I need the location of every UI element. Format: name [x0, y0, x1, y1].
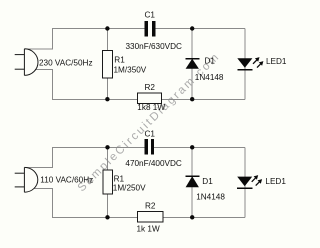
- svg-text:R1: R1: [114, 55, 125, 64]
- diode D1 (top) wire: [191, 29, 193, 100]
- LED1 (bottom) wire: [244, 147, 246, 217]
- resistor R1 (top) body: [103, 50, 113, 78]
- wire: bottom rail: [52, 216, 245, 218]
- svg-text:R1: R1: [114, 175, 125, 184]
- svg-text:1N4148: 1N4148: [196, 192, 225, 201]
- node dot D1 bottom-circuit top: [190, 145, 194, 149]
- svg-text:1M/250V: 1M/250V: [113, 183, 146, 192]
- wire: left jog top (plug to top rail): [24, 29, 52, 49]
- node dot D1 top: [190, 26, 194, 30]
- wire: left jog top: [24, 147, 52, 167]
- svg-text:C1: C1: [145, 11, 156, 20]
- svg-text:C1: C1: [145, 130, 156, 139]
- wire: left jog bottom: [34, 189, 52, 218]
- wire: top rail (left of C1): [52, 28, 145, 30]
- LED1 (top) light arrow 1: [253, 60, 257, 64]
- svg-text:1M/350V: 1M/350V: [114, 66, 147, 75]
- LED1 (top) cathode bar: [237, 69, 252, 70]
- LED1 (top) triangle: [237, 58, 252, 68]
- svg-text:LED1: LED1: [266, 57, 287, 66]
- svg-text:470nF/400VDC: 470nF/400VDC: [125, 159, 182, 168]
- diode D1 (top) triangle: [186, 59, 199, 69]
- resistor R1 (bottom) body: [103, 170, 113, 194]
- svg-text:D1: D1: [205, 56, 216, 65]
- plug AC mains (bottom circuit): [15, 167, 38, 192]
- svg-text:1k8 1W: 1k8 1W: [137, 103, 165, 112]
- capacitor C1 (bottom) plates: [145, 139, 148, 154]
- LED1 (top) light arrow 2: [257, 64, 261, 68]
- LED1 (bottom) triangle: [237, 177, 252, 187]
- svg-text:R2: R2: [145, 201, 156, 210]
- plug AC mains (top circuit): [15, 49, 38, 76]
- resistor R1 (bottom) wires: [107, 147, 109, 217]
- diode D1 (bottom) cathode bar: [185, 175, 199, 176]
- capacitor C1 (top) plates: [145, 21, 148, 36]
- svg-text:230 VAC/50Hz: 230 VAC/50Hz: [39, 59, 93, 68]
- svg-text:D1: D1: [202, 177, 213, 186]
- LED1 (top) wire: [244, 29, 246, 100]
- diode D1 (bottom) triangle: [186, 176, 199, 187]
- resistor R1 (top) wires: [106, 29, 108, 100]
- svg-text:1k 1W: 1k 1W: [137, 225, 160, 234]
- node dot D1 bottom: [190, 97, 194, 101]
- wire: top rail (left of C1): [52, 146, 145, 148]
- svg-text:1N4148: 1N4148: [195, 73, 224, 82]
- wire: left jog bottom (plug to bottom rail): [35, 69, 52, 99]
- node dot R1 bottom-circuit bottom: [105, 215, 109, 219]
- svg-text:R2: R2: [145, 83, 156, 92]
- resistor R2 (top) body: [137, 93, 161, 104]
- svg-text:LED1: LED1: [265, 177, 286, 186]
- svg-text:330nF/630VDC: 330nF/630VDC: [126, 42, 183, 51]
- wire: top rail (right of C1): [154, 146, 245, 148]
- diode D1 (top) cathode bar: [185, 58, 199, 59]
- svg-text:110 VAC/60Hz: 110 VAC/60Hz: [40, 175, 93, 184]
- node dot R1 bottom: [105, 97, 109, 101]
- LED1 (bottom) cathode bar: [237, 188, 253, 189]
- diode D1 (bottom) wire: [191, 147, 193, 217]
- wire: top rail (right of C1): [155, 28, 245, 30]
- resistor R2 (bottom) body: [138, 212, 164, 223]
- wire: bottom rail: [52, 99, 245, 101]
- node dot R1 bottom-circuit top: [105, 145, 109, 149]
- node dot R1 top: [105, 26, 109, 30]
- LED1 (bottom) light arrow 1: [252, 178, 256, 182]
- node dot D1 bottom-circuit bottom: [190, 215, 194, 219]
- LED1 (bottom) light arrow 2: [256, 182, 260, 186]
